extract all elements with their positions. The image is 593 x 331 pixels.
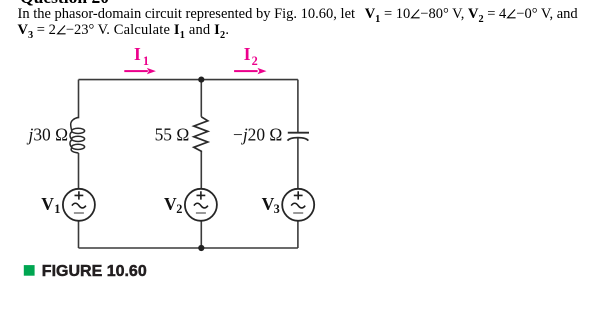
svg-text:1: 1: [143, 54, 149, 68]
svg-text:V: V: [164, 194, 177, 214]
svg-text:2: 2: [176, 202, 182, 216]
svg-text:1: 1: [54, 202, 60, 216]
svg-text:FIGURE 10.60: FIGURE 10.60: [42, 263, 147, 280]
svg-text:j30 Ω: j30 Ω: [27, 125, 69, 145]
svg-text:3: 3: [274, 202, 280, 216]
svg-text:I: I: [134, 44, 141, 64]
svg-text:I: I: [244, 44, 251, 64]
svg-text:55 Ω: 55 Ω: [155, 125, 190, 145]
svg-text:2: 2: [252, 54, 258, 68]
svg-text:V: V: [41, 194, 54, 214]
svg-text:−j20 Ω: −j20 Ω: [233, 125, 282, 145]
